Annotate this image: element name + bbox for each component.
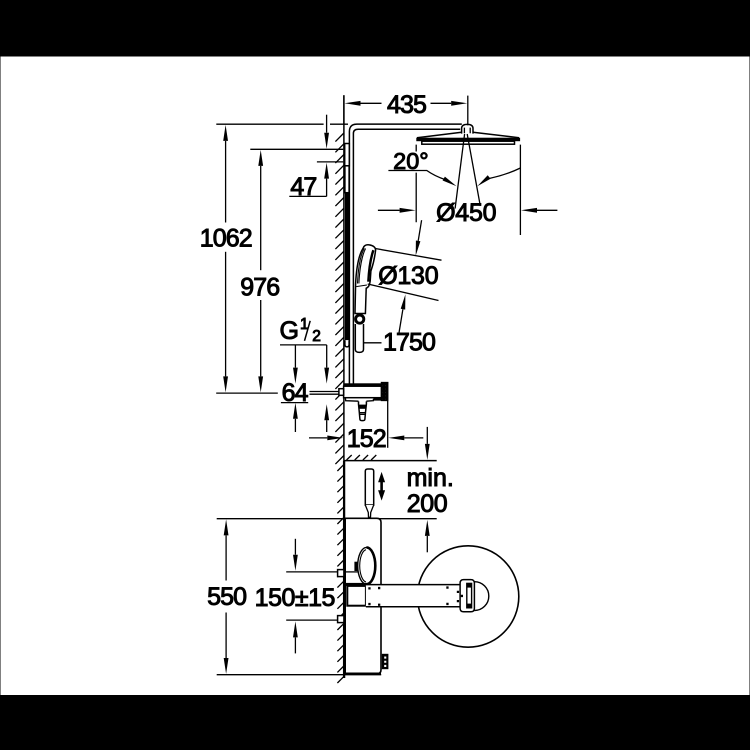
svg-text:min.: min. [407, 464, 454, 492]
bottom attachment screw [382, 654, 389, 669]
wall hatching (top view) [337, 465, 343, 683]
hand shower face lines [358, 248, 366, 283]
svg-text:200: 200 [407, 490, 447, 518]
64 up arrow [294, 419, 296, 432]
dimension 150pm15 arrows [294, 539, 296, 555]
svg-text:Ø130: Ø130 [378, 262, 438, 290]
wall line (side view) [343, 95, 345, 460]
ceiling reference line [344, 460, 437, 462]
vertical adjust double arrow [378, 472, 385, 501]
dimension 47 down arrow [326, 115, 328, 133]
svg-text:976: 976 [240, 274, 279, 302]
1062 top extension line / pipe top line [216, 123, 348, 125]
head shower lip [422, 141, 515, 144]
64 down arrow [294, 345, 296, 368]
dimension D450 arrows [378, 209, 400, 211]
dimension 550 bottom extension line [217, 674, 382, 676]
arm end connector [460, 580, 474, 612]
dimension 1062 line with arrows [225, 141, 227, 223]
svg-text:2: 2 [312, 328, 320, 345]
head shower disc (black bar) [416, 138, 520, 142]
svg-text:1750: 1750 [383, 329, 435, 357]
hand shower hose tube [355, 324, 363, 352]
supply nub 2 (top view) [338, 616, 344, 623]
svg-text:Ø450: Ø450 [436, 199, 496, 227]
svg-text:150±15: 150±15 [255, 584, 335, 612]
min200 up arrow [426, 536, 428, 552]
dimension 976 extension handled by 47 line; dim line with arrows [260, 166, 262, 270]
shower head top view circle [417, 546, 518, 647]
thermostat body top view [345, 518, 381, 674]
arm mounting block [347, 586, 366, 606]
ball joint at head apex [462, 124, 473, 133]
svg-text:1062: 1062 [200, 225, 252, 253]
SmartControl knob (hatched) [382, 383, 388, 401]
rail bottom cap [345, 340, 349, 347]
svg-text:47: 47 [290, 173, 316, 201]
dimension 435 extension line right [467, 96, 469, 126]
supply centerline extension line [216, 392, 278, 394]
ceiling hatching [347, 455, 377, 460]
top letterbox band [0, 0, 750, 56]
supply nub 1 (top view) [338, 570, 344, 577]
dimension 47 up arrow with leader [326, 179, 328, 197]
angle 20 degree spray cone V lines [455, 134, 480, 209]
dimension 152 extension line right [387, 401, 389, 448]
wall hatching (side view) [335, 133, 344, 464]
shower rail vertical pipe lines [349, 132, 353, 385]
dimension 550 top extension line [217, 518, 437, 520]
arm hinge dots [368, 586, 463, 605]
dimension 150pm15 extension lines [286, 572, 337, 620]
shower arm pipe (bend) [349, 124, 461, 131]
thermostat bottom lip [345, 398, 373, 402]
dimension 152 arrows [309, 437, 327, 439]
connector semicircle [474, 582, 488, 611]
SmartControl dial (ellipse, top view) [358, 547, 376, 584]
supply elbow nub [339, 389, 344, 396]
dial stem [354, 562, 357, 571]
thermostat top black bar [344, 383, 382, 386]
dimension 435 line with arrows [361, 102, 382, 104]
thermostat body [344, 386, 382, 398]
G 1/2 down arrow [326, 345, 328, 368]
bottom letterbox band [0, 696, 750, 750]
head shower top cone lines [417, 132, 519, 137]
dimension 435 top extension line left [343, 95, 345, 124]
dimension 550 line with arrows [225, 535, 227, 580]
arm mounting block black bar [345, 583, 367, 586]
svg-text:550: 550 [207, 583, 246, 611]
hand shower body [355, 245, 376, 314]
svg-text:G: G [280, 317, 299, 345]
supply pipe double line [310, 392, 339, 395]
20 degree right arc arrow [489, 168, 521, 179]
min200 down arrow [426, 427, 428, 444]
svg-text:435: 435 [387, 91, 426, 119]
shower arm (top view) [366, 585, 465, 606]
dimension D130 extension lines (slanted) [368, 248, 442, 300]
dimension D130 arrows [416, 241, 421, 256]
svg-text:152: 152 [347, 425, 386, 453]
shower rail black bar [345, 193, 349, 341]
dial shelf line [345, 571, 357, 573]
1750 leader line [364, 342, 382, 344]
wall line (top view) [343, 461, 345, 678]
outlet nipple [359, 401, 367, 420]
dimension D450 extension lines [416, 145, 520, 235]
hand shower holder ring [356, 315, 364, 323]
wall bracket [345, 144, 350, 166]
rail upper white section [345, 166, 349, 193]
second up arrow [326, 420, 328, 432]
screwdriver icon [365, 469, 373, 505]
G 1/2 leader line [280, 344, 327, 346]
dimension 47 reference lines [250, 149, 343, 162]
